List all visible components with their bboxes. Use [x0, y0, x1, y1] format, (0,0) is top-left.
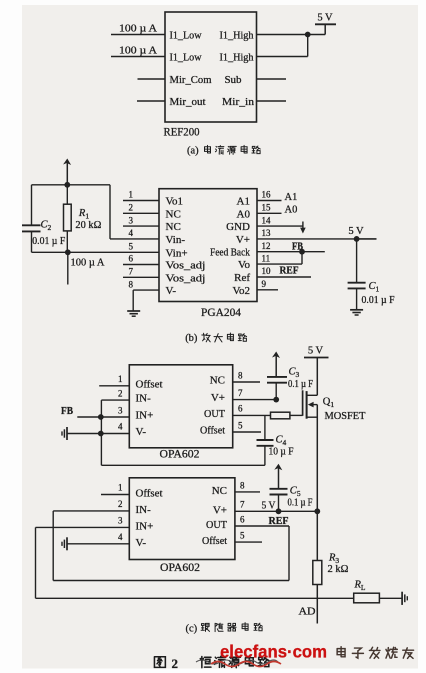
- wire REF200 Mir_in stub: [257, 100, 287, 102]
- figure caption: constant current source circuit: [200, 656, 211, 667]
- wire feedback vertical (IN- down to bottom loop): [100, 400, 102, 465]
- wire stub below bottom rail junction: [67, 252, 69, 284]
- wire REF200 Mir_out stub: [137, 100, 165, 102]
- svg-text:IN+: IN+: [136, 410, 154, 422]
- svg-text:4: 4: [118, 532, 123, 542]
- svg-text:15: 15: [262, 203, 272, 213]
- svg-text:2 kΩ: 2 kΩ: [328, 564, 349, 575]
- svg-text:GND: GND: [226, 221, 250, 233]
- svg-text:REF: REF: [280, 266, 299, 277]
- svg-text:3: 3: [118, 516, 123, 526]
- wire C5 bottom to V+ wire: [278, 495, 280, 512]
- svg-text:Vo1: Vo1: [166, 196, 184, 208]
- wire C4 bottom to feedback loop: [264, 446, 266, 466]
- capacitor C4: [257, 439, 274, 441]
- svg-text:NC: NC: [166, 221, 181, 233]
- svg-text:1: 1: [129, 190, 134, 200]
- wire PGA204 pin 8 V- to ground: [133, 289, 159, 291]
- wire REF200 I1_Low input 1: [111, 34, 165, 36]
- svg-text:OUT: OUT: [204, 408, 225, 420]
- svg-text:Offset: Offset: [202, 535, 227, 547]
- svg-text:100 µ A: 100 µ A: [119, 46, 157, 57]
- junction dot C5 / V+: [276, 508, 282, 514]
- wire PGA204 pin 5 Vin+ from 100uA node: [32, 251, 160, 253]
- svg-text:Mir_Com: Mir_Com: [170, 74, 212, 86]
- svg-text:REF: REF: [269, 516, 289, 527]
- svg-text:OPA602: OPA602: [160, 562, 200, 574]
- svg-text:0.01 µ F: 0.01 µ F: [32, 236, 65, 247]
- wire Vo pin 11 up to Feed Back pin 12: [301, 252, 303, 264]
- wire OPA602-1 pin 5 Offset stub: [233, 431, 261, 433]
- svg-text:5: 5: [238, 420, 243, 430]
- svg-text:NC: NC: [212, 485, 227, 497]
- wire PGA204 pin 12 stub: [257, 251, 325, 253]
- svg-text:Sub: Sub: [224, 74, 242, 86]
- svg-text:1: 1: [118, 483, 123, 493]
- svg-text:Mir_out: Mir_out: [170, 96, 206, 108]
- svg-text:I1_Low: I1_Low: [170, 30, 202, 42]
- svg-text:5: 5: [240, 531, 245, 541]
- wire IN+ loop vertical: [35, 527, 37, 598]
- wire C2 bottom to bottom rail: [31, 231, 33, 252]
- wire feedback bottom loop: [101, 464, 265, 466]
- svg-text:5 V: 5 V: [348, 226, 364, 237]
- wire V+ rail extension right: [357, 238, 377, 240]
- wire PGA204 pin 7 stub: [123, 276, 159, 278]
- wire OPA602-1 pin 3 IN+ from FB: [77, 416, 129, 418]
- ground arrow at GND pin 14: [302, 222, 304, 230]
- svg-text:V-: V-: [136, 426, 147, 438]
- wire PGA204 pin 11 stub: [257, 263, 302, 265]
- wire PGA204 pin 13 stub: [257, 238, 377, 240]
- svg-text:Vo2: Vo2: [232, 285, 250, 297]
- svg-text:3: 3: [118, 405, 123, 415]
- svg-text:Offset: Offset: [200, 425, 225, 437]
- wire REF200 I1_Low input 2: [111, 56, 165, 58]
- svg-text:7: 7: [240, 500, 245, 510]
- capacitor C5: [270, 488, 288, 490]
- wire OPA602-1 pin 8 NC stub: [233, 381, 260, 383]
- svg-text:5 V: 5 V: [262, 501, 276, 512]
- wire REF200 I1_High row1 to 5V: [257, 34, 326, 36]
- wire C1 to ground: [356, 288, 358, 309]
- svg-text:FB: FB: [292, 242, 303, 253]
- wire 5V bar down to MOSFET drain: [316, 358, 318, 396]
- wire OPA602-1 pin 7 V+ to C3: [233, 399, 277, 401]
- svg-text:Vin-: Vin-: [166, 234, 186, 246]
- watermark Chinese: dianzi fashaoyou: [337, 647, 345, 657]
- svg-text:V+: V+: [213, 504, 227, 516]
- svg-text:2: 2: [118, 389, 123, 399]
- svg-text:Vos_adj: Vos_adj: [166, 260, 206, 272]
- IC U-REF200 box: [165, 12, 257, 122]
- wire OPA602-1 pin 4 V- from ground: [67, 433, 129, 435]
- svg-text:20 kΩ: 20 kΩ: [75, 220, 101, 231]
- wire OPA602-2 pin 3 IN+: [36, 526, 130, 528]
- wire OPA602-1 pin 1 stub: [99, 385, 129, 387]
- svg-text:A1: A1: [285, 192, 298, 203]
- wire PGA204 pin 14 stub: [257, 225, 303, 227]
- svg-text:5: 5: [129, 242, 134, 252]
- wire OPA602-2 pin 7 V+ to 5V rail: [235, 510, 317, 512]
- resistor R3: [316, 511, 318, 560]
- power arrow above C3: [272, 352, 280, 359]
- svg-text:10: 10: [262, 266, 272, 276]
- svg-text:6: 6: [129, 254, 134, 264]
- wire PGA204 pin 1 stub: [123, 200, 159, 202]
- wire OPA602-1 pin 2 IN-: [101, 399, 129, 401]
- wire PGA204 pin 10 stub: [257, 276, 311, 278]
- svg-text:IN+: IN+: [136, 520, 154, 532]
- wire PGA204 pin 2 stub: [123, 212, 159, 214]
- junction dot bottom rail: [65, 249, 71, 255]
- svg-text:8: 8: [240, 480, 245, 490]
- wire load rail (IN+ loop to RL): [36, 597, 354, 599]
- wire gate resistor to MOSFET gate: [290, 414, 303, 416]
- wire OUT down to IN- loop: [288, 526, 290, 581]
- wire OPA602-2 pin 6 OUT / REF: [235, 525, 289, 527]
- svg-text:Vo: Vo: [238, 259, 251, 271]
- svg-text:elecfans·com: elecfans·com: [220, 642, 327, 662]
- svg-text:OPA602: OPA602: [160, 449, 200, 461]
- svg-text:2: 2: [129, 203, 134, 213]
- IC U-PGA204 box: [159, 189, 257, 302]
- svg-text:FB: FB: [61, 406, 73, 417]
- svg-text:12: 12: [262, 241, 271, 251]
- wire PGA204 pin 15 stub: [257, 212, 282, 214]
- svg-text:3: 3: [129, 215, 134, 225]
- power 5V node on V+ wire (section b): [354, 236, 360, 242]
- power arrow above C5: [274, 464, 282, 471]
- wire PGA204 pin 9 stub: [257, 289, 278, 291]
- svg-text:Vin+: Vin+: [166, 247, 188, 259]
- svg-text:7: 7: [129, 267, 134, 277]
- wire top rail (R1 top / C2 top / Vin-): [32, 184, 111, 186]
- svg-text:V+: V+: [236, 234, 250, 246]
- junction dot FB node: [299, 249, 305, 255]
- junction dot I1_High node: [305, 32, 311, 38]
- wire PGA204 pin 3 stub: [123, 225, 159, 227]
- ground (OPA602-1 V-): [66, 427, 68, 440]
- power symbol 5V (section a): [315, 23, 336, 25]
- svg-text:6: 6: [238, 404, 243, 414]
- svg-text:Feed Back: Feed Back: [210, 247, 250, 259]
- svg-text:I1_High: I1_High: [220, 30, 254, 42]
- resistor R1: [66, 185, 68, 204]
- wire REF200 Mir_Com stub: [138, 78, 166, 80]
- svg-text:6: 6: [240, 514, 245, 524]
- wire OUT node down to C4: [264, 415, 266, 440]
- junction dot V+ / C3: [273, 397, 279, 403]
- wire REF200 I1_High row2 to junction: [257, 56, 308, 58]
- svg-text:V+: V+: [211, 392, 225, 404]
- svg-text:REF200: REF200: [164, 127, 200, 139]
- svg-text:2: 2: [172, 656, 179, 671]
- svg-text:NC: NC: [210, 375, 225, 387]
- svg-text:5 V: 5 V: [317, 13, 333, 24]
- wire IN- bottom loop: [53, 580, 289, 582]
- wire RL to ground: [379, 597, 402, 599]
- figure caption: Fig 2: [154, 657, 165, 668]
- svg-text:1: 1: [118, 374, 123, 384]
- junction dot R1 top: [64, 182, 70, 188]
- watermark red wavy underline: [211, 662, 281, 667]
- op-amp U-OPA602 (second) box: [129, 478, 235, 560]
- wire R3 bottom to AD terminal: [316, 585, 318, 624]
- wire vertical from top rail down to Vin-: [109, 185, 111, 239]
- svg-text:11: 11: [262, 253, 271, 263]
- wire PGA204 pin 6 stub: [123, 264, 159, 266]
- svg-text:PGA204: PGA204: [201, 307, 241, 319]
- svg-text:Offset: Offset: [136, 488, 163, 500]
- wire PGA204 pin 4 Vin- from R1/C2 node: [110, 238, 159, 240]
- svg-text:A1: A1: [237, 196, 250, 208]
- svg-text:8: 8: [238, 371, 243, 381]
- wire REF200 Sub stub: [257, 78, 287, 80]
- strike-through wavy line over caption: [196, 660, 278, 664]
- ground (right, after RL): [401, 592, 403, 605]
- svg-text:5 V: 5 V: [308, 346, 324, 357]
- svg-text:AD: AD: [299, 607, 316, 618]
- svg-text:IN-: IN-: [136, 504, 152, 516]
- wire OPA602-2 pin 2 IN-: [53, 510, 129, 512]
- svg-text:(b): (b): [185, 333, 198, 344]
- wire C2 branch down (left): [31, 185, 33, 226]
- resistor RL: [354, 593, 380, 603]
- svg-text:0.1 µ F: 0.1 µ F: [288, 379, 313, 390]
- svg-text:10 µ F: 10 µ F: [269, 447, 294, 458]
- wire IN- loop vertical: [52, 511, 54, 581]
- transistor Q1 MOSFET symbol: [302, 390, 304, 416]
- svg-text:16: 16: [262, 190, 272, 200]
- svg-text:A0: A0: [237, 208, 251, 220]
- wire C3 bottom to V+ node: [275, 383, 277, 400]
- svg-text:(c): (c): [186, 624, 198, 635]
- svg-text:9: 9: [262, 279, 267, 289]
- svg-text:8: 8: [129, 279, 134, 289]
- svg-text:(a): (a): [187, 146, 199, 157]
- capacitor C3: [267, 376, 287, 378]
- svg-text:0.01 µ F: 0.01 µ F: [362, 295, 395, 306]
- svg-text:NC: NC: [166, 208, 181, 220]
- junction dot IN+ node: [98, 414, 104, 420]
- wire OPA602-2 pin 5 Offset stub: [235, 541, 262, 543]
- ground (PGA204 V-): [127, 310, 140, 312]
- svg-text:2: 2: [118, 499, 123, 509]
- svg-text:V-: V-: [136, 537, 147, 549]
- op-amp U-OPA602 (first) box: [129, 365, 232, 448]
- svg-text:OUT: OUT: [206, 519, 227, 531]
- wire PGA204 pin 16 stub: [257, 200, 282, 202]
- ground (C1): [350, 309, 363, 311]
- wire vertical join of I1_High pins: [307, 35, 309, 57]
- resistor (gate, unlabeled): [271, 412, 290, 419]
- wire OPA602-2 pin 1 stub: [101, 494, 129, 496]
- svg-text:I1_Low: I1_Low: [170, 52, 202, 64]
- capacitor C1: [348, 282, 366, 284]
- svg-text:Mir_in: Mir_in: [222, 96, 255, 108]
- wire MOSFET source down to 5V node: [316, 405, 318, 512]
- wire OPA602-1 pin 6 OUT to gate resistor: [233, 414, 271, 416]
- svg-text:Offset: Offset: [136, 378, 163, 390]
- svg-text:V-: V-: [166, 285, 177, 297]
- capacitor C2: [22, 224, 41, 226]
- svg-text:14: 14: [262, 215, 272, 225]
- svg-text:Vos_adj: Vos_adj: [166, 272, 206, 284]
- svg-text:A0: A0: [285, 205, 298, 216]
- junction dot V+ / source rail: [314, 508, 320, 514]
- svg-text:0.1 µ F: 0.1 µ F: [288, 498, 313, 509]
- svg-text:IN-: IN-: [136, 393, 152, 405]
- svg-text:13: 13: [262, 228, 272, 238]
- wire 5V node down to C1: [356, 239, 358, 283]
- wire OPA602-2 pin 4 V- from ground: [67, 543, 129, 545]
- wire OPA602-2 pin 8 NC stub: [235, 491, 260, 493]
- svg-text:100 µ A: 100 µ A: [71, 258, 105, 269]
- ground (OPA602-2 V-): [66, 537, 68, 550]
- svg-text:MOSFET: MOSFET: [325, 411, 367, 422]
- junction dot V- node: [98, 431, 104, 437]
- svg-text:Ref: Ref: [234, 272, 250, 284]
- current source arrow into R1 node: [63, 159, 71, 166]
- svg-text:7: 7: [238, 388, 243, 398]
- svg-text:I1_High: I1_High: [220, 52, 254, 64]
- svg-text:4: 4: [118, 421, 123, 431]
- svg-text:100 µ A: 100 µ A: [119, 24, 157, 35]
- svg-text:4: 4: [129, 228, 134, 238]
